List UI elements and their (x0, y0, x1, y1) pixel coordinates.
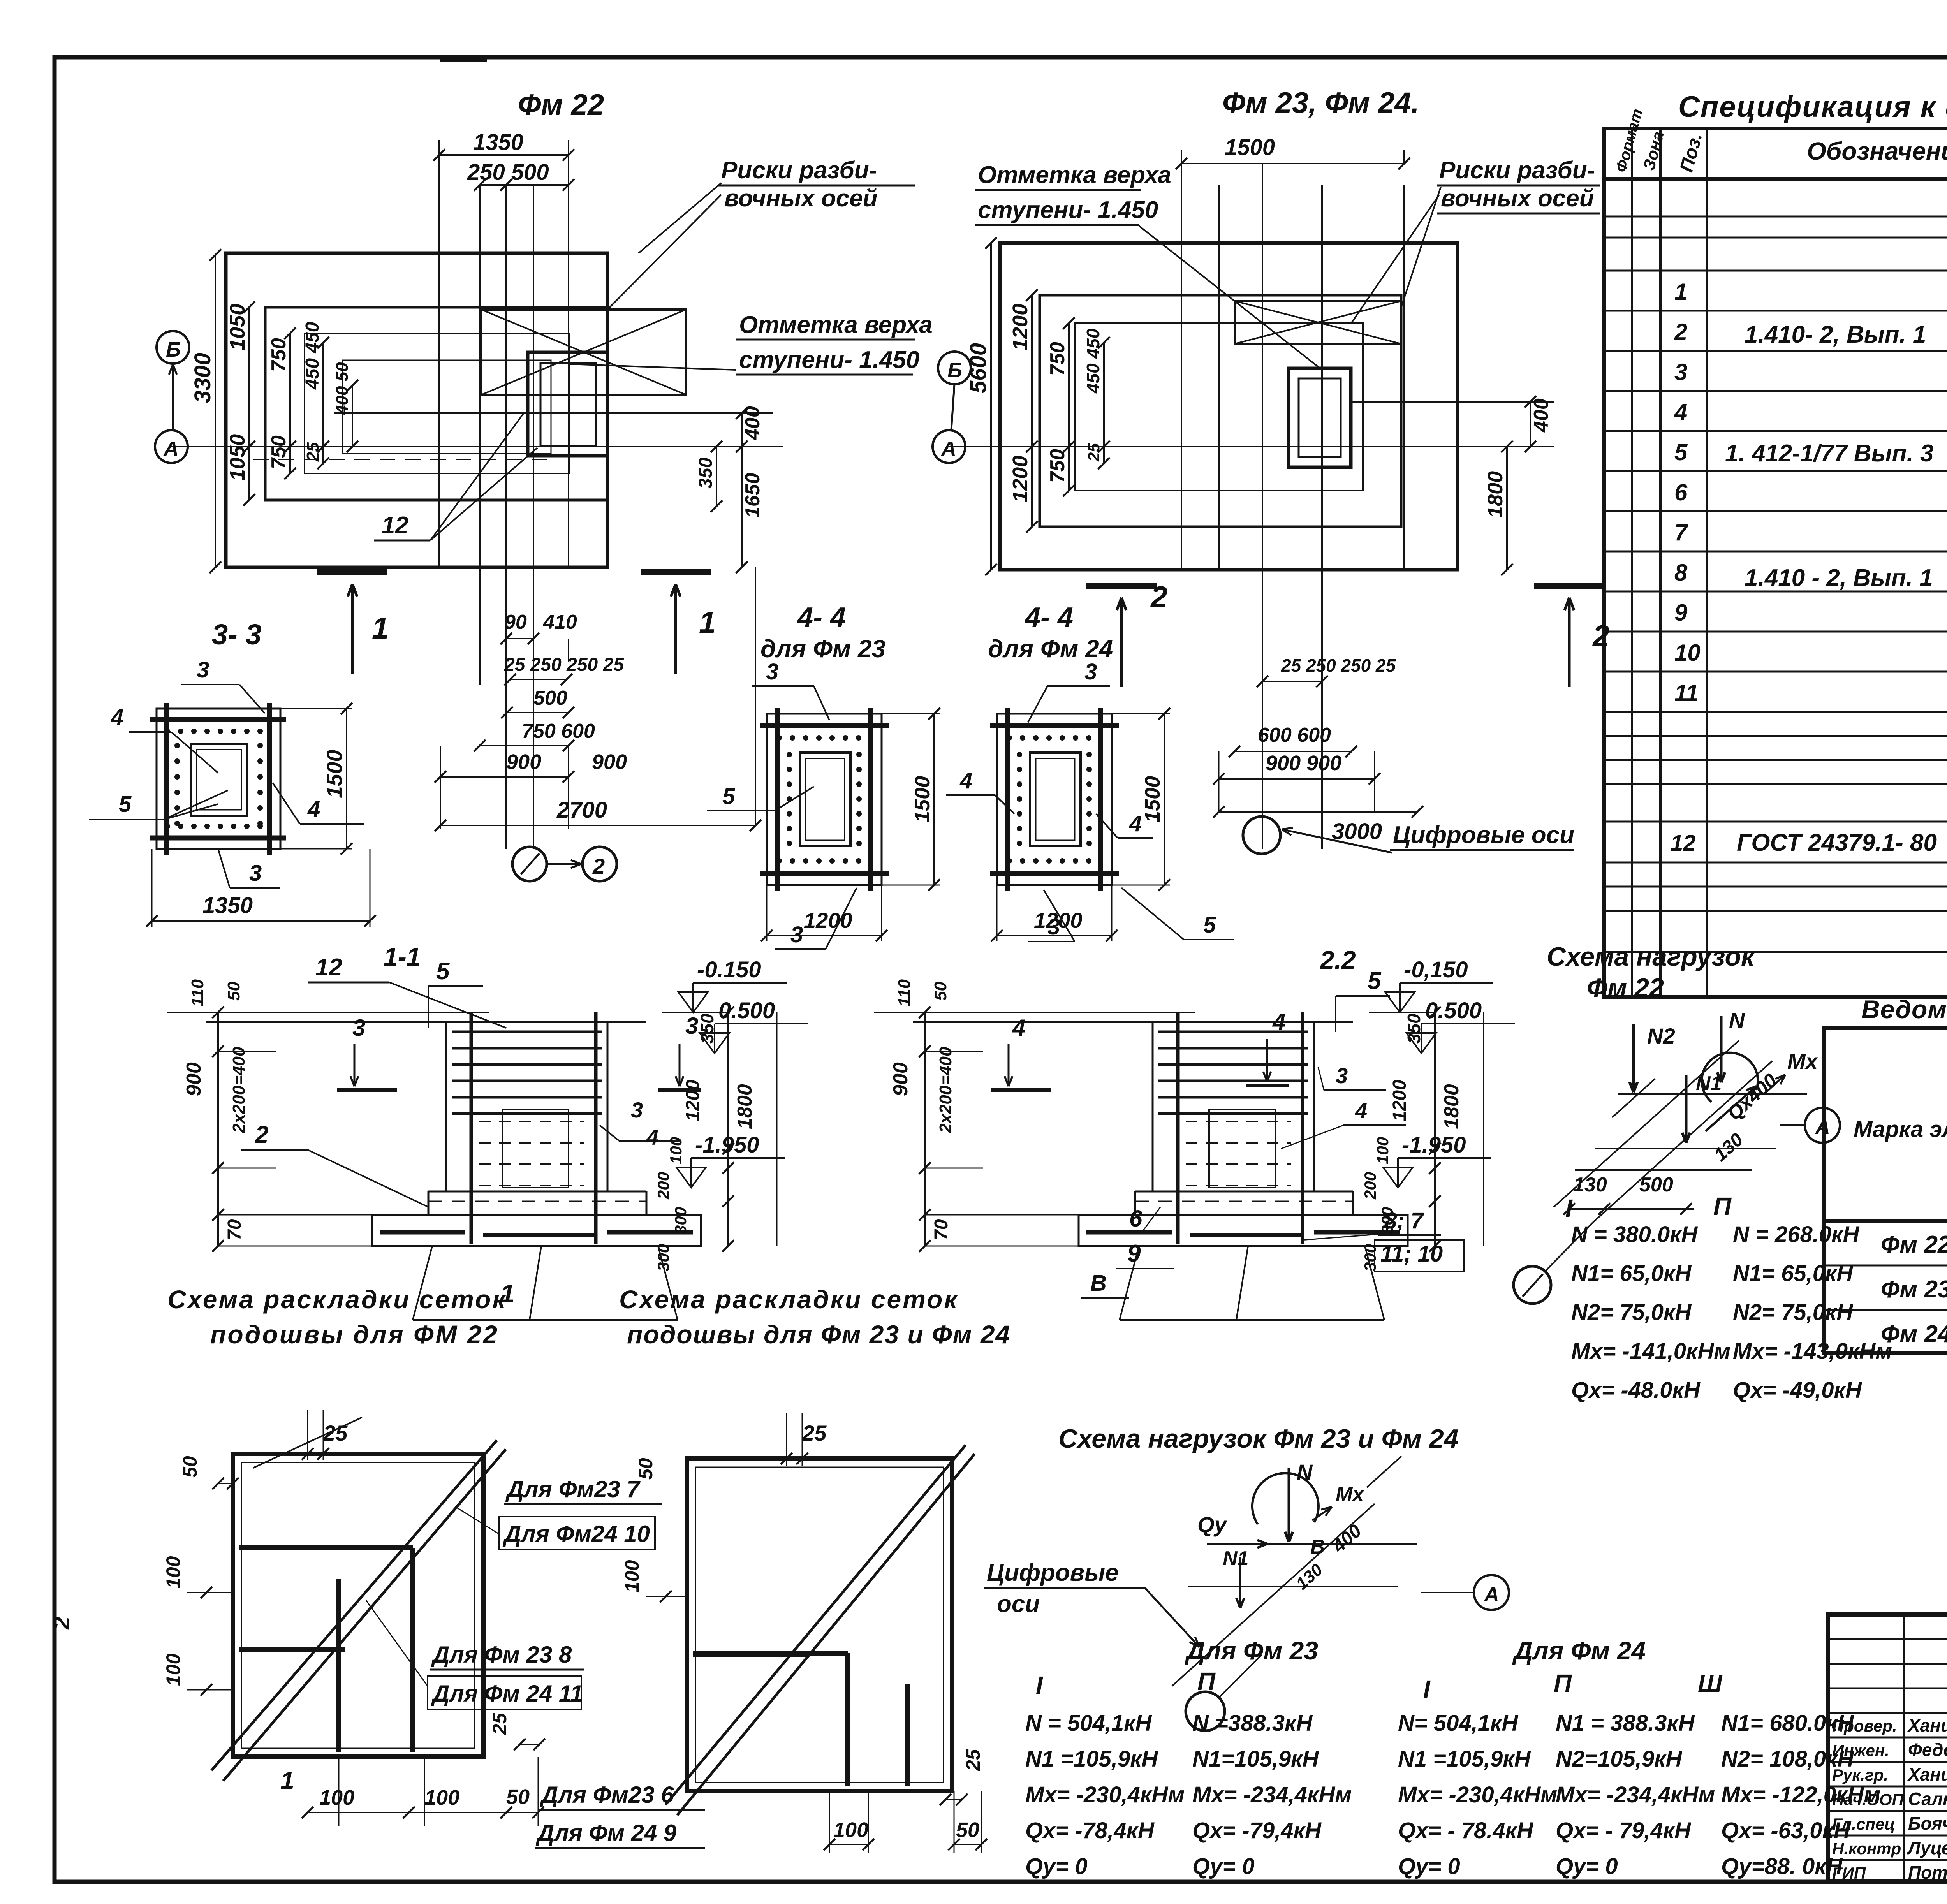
svg-text:Для Фм24 10: Для Фм24 10 (502, 1521, 650, 1547)
svg-text:50: 50 (931, 982, 950, 1001)
svg-text:2: 2 (255, 1121, 268, 1148)
svg-text:1: 1 (372, 611, 389, 645)
svg-text:Qх= -49,0кН: Qх= -49,0кН (1733, 1378, 1862, 1403)
svg-text:ступени- 1.450: ступени- 1.450 (739, 347, 919, 373)
svg-text:Для Фм 23 8: Для Фм 23 8 (431, 1642, 572, 1668)
svg-text:200: 200 (654, 1172, 672, 1200)
svg-text:1200: 1200 (1389, 1080, 1410, 1121)
svg-text:4: 4 (959, 768, 972, 794)
svg-text:Для Фм 23: Для Фм 23 (1185, 1636, 1318, 1665)
svg-text:2: 2 (1150, 580, 1167, 614)
svg-text:750: 750 (268, 338, 290, 372)
svg-text:Фм 22: Фм 22 (1587, 973, 1664, 1003)
svg-text:100: 100 (162, 1653, 184, 1686)
svg-text:Отметка верха: Отметка верха (739, 311, 933, 338)
svg-text:N: N (1729, 1008, 1745, 1033)
svg-text:50: 50 (956, 1818, 979, 1842)
svg-text:2х200=400: 2х200=400 (229, 1047, 248, 1133)
svg-text:N1=105,9кН: N1=105,9кН (1192, 1746, 1319, 1772)
svg-text:4: 4 (646, 1125, 658, 1149)
svg-text:4: 4 (1272, 1009, 1285, 1035)
svg-text:1.410- 2, Вып. 1: 1.410- 2, Вып. 1 (1745, 321, 1926, 348)
svg-text:100: 100 (1373, 1137, 1392, 1164)
svg-text:Qу= 0: Qу= 0 (1556, 1854, 1618, 1879)
svg-text:1050: 1050 (226, 434, 249, 481)
svg-text:1650: 1650 (741, 473, 764, 518)
svg-text:Схема раскладки сеток: Схема раскладки сеток (167, 1285, 507, 1314)
svg-text:А: А (163, 437, 179, 461)
svg-text:4: 4 (307, 797, 320, 822)
svg-text:подошвы для Фм 23 и Фм 24: подошвы для Фм 23 и Фм 24 (627, 1320, 1010, 1349)
svg-text:3: 3 (1047, 914, 1060, 940)
svg-text:Схема раскладки сеток: Схема раскладки сеток (619, 1285, 959, 1314)
svg-text:90: 90 (504, 611, 527, 633)
svg-text:N= 504,1кН: N= 504,1кН (1398, 1710, 1518, 1736)
svg-text:3: 3 (1674, 359, 1687, 385)
svg-text:12: 12 (382, 512, 408, 539)
svg-text:25: 25 (1084, 443, 1103, 462)
svg-text:N2= 75,0кН: N2= 75,0кН (1571, 1300, 1692, 1325)
svg-text:Мх: Мх (1336, 1483, 1364, 1506)
svg-text:Б: Б (166, 338, 181, 361)
svg-text:Марка элемента: Марка элемента (1854, 1117, 1947, 1142)
svg-text:N1: N1 (1223, 1547, 1248, 1570)
svg-text:1500: 1500 (322, 750, 347, 798)
svg-text:Мх= -230,4кНм: Мх= -230,4кНм (1398, 1782, 1557, 1807)
svg-text:А: А (1484, 1583, 1499, 1606)
svg-text:5: 5 (1674, 439, 1688, 465)
svg-text:3: 3 (685, 1013, 698, 1039)
svg-text:Схема нагрузок Фм 23 и Фм 24: Схема нагрузок Фм 23 и Фм 24 (1058, 1424, 1459, 1454)
svg-text:Для Фм23 6: Для Фм23 6 (539, 1782, 674, 1808)
svg-text:Бояченко: Бояченко (1908, 1813, 1947, 1834)
svg-text:Мх= -143,0кНм: Мх= -143,0кНм (1733, 1339, 1892, 1364)
svg-text:Мх= -234,4кНм: Мх= -234,4кНм (1192, 1782, 1352, 1807)
svg-text:Схема нагрузок: Схема нагрузок (1547, 942, 1756, 971)
svg-text:5600: 5600 (966, 343, 991, 393)
svg-text:N1= 680.0кН: N1= 680.0кН (1721, 1710, 1854, 1736)
svg-text:400 50: 400 50 (333, 362, 352, 415)
svg-text:750: 750 (1046, 342, 1069, 376)
svg-text:3: 3 (1336, 1063, 1348, 1088)
svg-text:5: 5 (436, 958, 450, 985)
svg-text:3: 3 (197, 657, 209, 683)
svg-text:N2= 75,0кН: N2= 75,0кН (1733, 1300, 1853, 1325)
svg-text:N2: N2 (1647, 1024, 1675, 1048)
svg-text:Обозначение: Обозначение (1807, 137, 1947, 165)
svg-text:Qх= -78,4кН: Qх= -78,4кН (1025, 1818, 1155, 1843)
svg-text:N1= 65,0кН: N1= 65,0кН (1733, 1261, 1853, 1286)
svg-text:3: 3 (790, 922, 803, 947)
svg-text:П: П (1197, 1667, 1216, 1695)
svg-text:4: 4 (1129, 811, 1142, 836)
svg-text:Б: Б (947, 359, 962, 382)
svg-text:100: 100 (424, 1786, 459, 1809)
svg-text:110: 110 (895, 979, 914, 1007)
svg-text:500: 500 (533, 687, 567, 709)
svg-text:Салкьянц: Салкьянц (1908, 1789, 1947, 1809)
svg-text:Qу=88. 0кН: Qу=88. 0кН (1721, 1854, 1843, 1879)
svg-text:200: 200 (1361, 1172, 1379, 1200)
svg-text:12: 12 (1671, 831, 1696, 856)
svg-text:-1.950: -1.950 (1402, 1132, 1466, 1158)
svg-text:-0.150: -0.150 (697, 957, 761, 982)
svg-text:4: 4 (1674, 399, 1687, 425)
svg-text:Цифровые: Цифровые (987, 1559, 1119, 1586)
svg-text:N = 380.0кН: N = 380.0кН (1571, 1222, 1698, 1247)
svg-text:600 600: 600 600 (1258, 724, 1331, 746)
svg-text:Риски разби-: Риски разби- (1439, 157, 1595, 184)
svg-text:100: 100 (833, 1818, 868, 1842)
svg-text:В: В (1310, 1536, 1325, 1558)
svg-text:900 900: 900 900 (1266, 751, 1341, 775)
svg-text:N1: N1 (1696, 1072, 1722, 1095)
svg-text:2х200=400: 2х200=400 (936, 1047, 955, 1133)
svg-text:Qу= 0: Qу= 0 (1025, 1854, 1088, 1879)
svg-text:1350: 1350 (202, 893, 253, 918)
svg-text:ГОСТ 24379.1- 80: ГОСТ 24379.1- 80 (1737, 829, 1937, 856)
svg-text:Федотова: Федотова (1908, 1740, 1947, 1760)
svg-text:Qу= 0: Qу= 0 (1192, 1854, 1255, 1879)
svg-text:Цифровые оси: Цифровые оси (1393, 822, 1574, 848)
svg-text:25 250 250 25: 25 250 250 25 (1281, 655, 1396, 676)
svg-text:11: 11 (1674, 680, 1699, 706)
svg-text:Ведомость расхода стали на: Ведомость расхода стали на элемент, кг (1861, 995, 1947, 1024)
svg-text:П: П (1554, 1669, 1572, 1697)
svg-text:для Фм 24: для Фм 24 (988, 635, 1113, 663)
svg-text:250 500: 250 500 (467, 160, 549, 185)
svg-text:1200: 1200 (1009, 456, 1032, 502)
svg-text:900: 900 (889, 1062, 912, 1096)
svg-text:для Фм 23: для Фм 23 (760, 635, 885, 663)
svg-text:350: 350 (695, 458, 716, 489)
svg-text:3: 3 (352, 1015, 365, 1041)
svg-text:Фм 22: Фм 22 (1881, 1231, 1947, 1258)
svg-text:0.500: 0.500 (1425, 998, 1482, 1023)
svg-text:5: 5 (119, 792, 132, 817)
svg-text:750: 750 (268, 435, 290, 469)
svg-text:Фм 23, Фм 24.: Фм 23, Фм 24. (1222, 86, 1419, 120)
svg-text:6: 6 (1674, 479, 1688, 505)
svg-text:N2= 108,0кН: N2= 108,0кН (1721, 1746, 1854, 1772)
svg-text:2: 2 (592, 854, 605, 878)
svg-text:1800: 1800 (734, 1084, 756, 1129)
svg-text:4- 4: 4- 4 (1024, 602, 1073, 633)
svg-text:11; 10: 11; 10 (1380, 1241, 1443, 1267)
svg-text:Ш: Ш (1698, 1669, 1723, 1697)
svg-text:1: 1 (280, 1767, 294, 1795)
svg-text:3: 3 (766, 659, 778, 685)
svg-text:100: 100 (621, 1560, 643, 1593)
svg-text:2: 2 (1674, 319, 1687, 345)
svg-text:Мх= -234,4кНм: Мх= -234,4кНм (1556, 1782, 1715, 1807)
svg-text:1500: 1500 (1225, 135, 1275, 160)
svg-text:Мх: Мх (1787, 1049, 1819, 1073)
svg-text:ступени- 1.450: ступени- 1.450 (978, 197, 1158, 223)
svg-text:Луценко: Луценко (1907, 1838, 1947, 1858)
svg-text:400: 400 (1530, 398, 1553, 433)
svg-text:5: 5 (1368, 968, 1382, 994)
svg-text:Мх= -122,0кНм: Мх= -122,0кНм (1721, 1782, 1880, 1807)
svg-text:оси: оси (997, 1591, 1040, 1617)
svg-text:130: 130 (1573, 1174, 1607, 1196)
svg-text:Для Фм 24 11: Для Фм 24 11 (431, 1681, 583, 1707)
svg-text:Отметка верха: Отметка верха (978, 162, 1171, 188)
svg-text:0.500: 0.500 (718, 998, 775, 1023)
svg-text:50: 50 (179, 1456, 201, 1478)
svg-text:I: I (1565, 1194, 1573, 1222)
svg-text:25 250 250 25: 25 250 250 25 (504, 655, 624, 675)
svg-text:1: 1 (699, 605, 716, 639)
svg-text:Фм 23: Фм 23 (1881, 1276, 1947, 1303)
svg-text:N1 =105,9кН: N1 =105,9кН (1398, 1746, 1531, 1772)
svg-text:110: 110 (188, 979, 207, 1007)
svg-text:25: 25 (802, 1421, 827, 1445)
svg-text:Qх= - 78.4кН: Qх= - 78.4кН (1398, 1818, 1533, 1843)
svg-text:3- 3: 3- 3 (212, 618, 262, 651)
svg-text:6: 6 (1129, 1205, 1142, 1232)
svg-text:8: 8 (1674, 560, 1688, 586)
svg-text:I: I (1036, 1671, 1043, 1699)
svg-text:50: 50 (224, 982, 243, 1001)
svg-text:Спецификация к фундаментам: Спецификация к фундаментам Фм 22 - Фм 24 (1678, 90, 1947, 123)
svg-text:вочных осей: вочных осей (724, 185, 878, 212)
svg-text:N2=105,9кН: N2=105,9кН (1556, 1746, 1683, 1772)
svg-text:25: 25 (303, 442, 322, 462)
svg-text:50: 50 (635, 1458, 657, 1480)
svg-text:9: 9 (1127, 1240, 1141, 1267)
svg-text:4: 4 (111, 705, 123, 730)
svg-text:1: 1 (1674, 279, 1687, 305)
svg-text:7: 7 (1674, 519, 1688, 546)
svg-text:2.2: 2.2 (1319, 945, 1356, 974)
svg-text:1200: 1200 (1009, 304, 1032, 350)
svg-text:Qх= -63,0кН: Qх= -63,0кН (1721, 1818, 1850, 1843)
svg-text:1800: 1800 (1484, 471, 1507, 518)
svg-text:4- 4: 4- 4 (797, 602, 846, 633)
svg-text:Qх= -48.0кН: Qх= -48.0кН (1571, 1378, 1701, 1403)
svg-text:1500: 1500 (911, 776, 934, 823)
svg-text:1800: 1800 (1440, 1084, 1463, 1129)
svg-text:-1.950: -1.950 (695, 1132, 759, 1158)
svg-text:2: 2 (1592, 619, 1609, 653)
svg-text:900: 900 (592, 750, 627, 774)
svg-text:Для Фм 24: Для Фм 24 (1512, 1636, 1646, 1665)
svg-text:Мх= -230,4кНм: Мх= -230,4кНм (1025, 1782, 1185, 1807)
svg-text:1. 412-1/77 Вып. 3: 1. 412-1/77 Вып. 3 (1725, 440, 1933, 467)
svg-text:500: 500 (1639, 1174, 1673, 1196)
svg-text:Ханин: Ханин (1907, 1764, 1947, 1784)
svg-text:N1 = 388.3кН: N1 = 388.3кН (1556, 1710, 1695, 1736)
svg-text:50: 50 (506, 1785, 530, 1809)
svg-text:Для Фм23 7: Для Фм23 7 (505, 1476, 641, 1502)
svg-text:25: 25 (962, 1749, 984, 1771)
svg-text:N1= 65,0кН: N1= 65,0кН (1571, 1261, 1692, 1286)
svg-text:Qх= -79,4кН: Qх= -79,4кН (1192, 1818, 1322, 1843)
svg-text:450 450: 450 450 (302, 322, 323, 390)
svg-text:Qх= - 79,4кН: Qх= - 79,4кН (1556, 1818, 1691, 1843)
svg-text:А: А (1815, 1116, 1830, 1139)
svg-text:вочных осей: вочных осей (1441, 185, 1594, 212)
svg-text:В: В (1090, 1271, 1107, 1296)
svg-text:3300: 3300 (190, 353, 215, 403)
svg-text:750: 750 (1046, 449, 1069, 483)
svg-text:2700: 2700 (556, 797, 607, 823)
svg-text:Ханин: Ханин (1907, 1715, 1947, 1735)
svg-text:3: 3 (1084, 659, 1097, 685)
svg-text:450 450: 450 450 (1083, 328, 1103, 394)
svg-text:3: 3 (631, 1098, 643, 1122)
svg-text:-0,150: -0,150 (1404, 957, 1468, 982)
svg-text:3000: 3000 (1332, 819, 1382, 844)
svg-text:4: 4 (1355, 1098, 1367, 1123)
svg-text:А: А (940, 437, 956, 461)
svg-text:5: 5 (722, 784, 735, 809)
svg-text:2: 2 (48, 1617, 74, 1630)
svg-text:N = 504,1кН: N = 504,1кН (1025, 1710, 1152, 1736)
svg-text:подошвы для ФМ 22: подошвы для ФМ 22 (210, 1320, 499, 1349)
svg-text:70: 70 (931, 1219, 952, 1240)
svg-text:N =388.3кН: N =388.3кН (1192, 1710, 1313, 1736)
svg-text:1500: 1500 (1141, 776, 1164, 823)
svg-text:Риски разби-: Риски разби- (721, 157, 877, 184)
svg-text:8; 7: 8; 7 (1384, 1208, 1424, 1234)
svg-text:410: 410 (543, 611, 577, 633)
svg-text:9: 9 (1674, 600, 1688, 626)
svg-text:Qу= 0: Qу= 0 (1398, 1854, 1460, 1879)
svg-text:12: 12 (315, 954, 342, 981)
svg-text:100: 100 (319, 1786, 354, 1809)
svg-text:70: 70 (224, 1219, 245, 1240)
svg-text:N = 268.0кН: N = 268.0кН (1733, 1222, 1860, 1247)
svg-text:П: П (1713, 1192, 1732, 1220)
svg-text:400: 400 (741, 406, 764, 440)
svg-text:1-1: 1-1 (384, 942, 421, 971)
svg-text:Фм 22: Фм 22 (518, 88, 604, 121)
svg-text:900: 900 (506, 750, 541, 774)
svg-text:10: 10 (1674, 640, 1701, 666)
svg-text:Мх= -141,0кНм: Мх= -141,0кНм (1571, 1339, 1730, 1364)
svg-text:3: 3 (249, 860, 262, 886)
svg-text:1050: 1050 (226, 304, 249, 350)
svg-text:5: 5 (1203, 912, 1216, 938)
svg-text:100: 100 (162, 1556, 184, 1589)
svg-text:25: 25 (489, 1712, 511, 1735)
svg-text:900: 900 (183, 1062, 205, 1096)
svg-text:Потйшевск.: Потйшевск. (1908, 1862, 1947, 1883)
svg-text:1200: 1200 (683, 1080, 703, 1121)
svg-text:1350: 1350 (473, 130, 523, 155)
svg-text:I: I (1423, 1675, 1431, 1703)
svg-text:Qу: Qу (1197, 1512, 1228, 1537)
svg-text:N1 =105,9кН: N1 =105,9кН (1025, 1746, 1158, 1772)
svg-text:Для Фм 24 9: Для Фм 24 9 (535, 1820, 677, 1846)
svg-text:1.410 - 2, Вып. 1: 1.410 - 2, Вып. 1 (1745, 565, 1933, 591)
svg-text:4: 4 (1012, 1015, 1025, 1041)
svg-text:300: 300 (671, 1207, 690, 1234)
svg-text:750 600: 750 600 (522, 720, 595, 743)
